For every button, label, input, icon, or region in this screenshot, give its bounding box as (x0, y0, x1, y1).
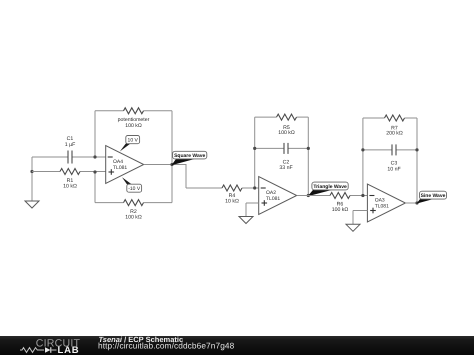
svg-text:Sine Wave: Sine Wave (421, 193, 446, 199)
op-amp U3 OA3 (367, 184, 405, 222)
svg-text:Triangle Wave: Triangle Wave (313, 184, 347, 190)
svg-text:-10 V: -10 V (128, 186, 141, 192)
node: integrator feedback taps (253, 147, 310, 190)
svg-text:TL081: TL081 (113, 165, 127, 171)
resistor R5 (255, 114, 309, 148)
capacitor C1 (32, 136, 106, 163)
resistor R2 (95, 165, 172, 221)
svg-text:100 kΩ: 100 kΩ (332, 207, 349, 213)
svg-text:200 kΩ: 200 kΩ (386, 131, 403, 137)
footer url (98, 341, 235, 351)
svg-text:100 kΩ: 100 kΩ (278, 130, 295, 136)
svg-text:TL081: TL081 (266, 196, 280, 202)
resistor R4 (186, 185, 259, 204)
node: feedback taps at OA4 inputs (93, 155, 96, 173)
svg-text:100 kΩ: 100 kΩ (125, 215, 142, 221)
svg-text:33 nF: 33 nF (279, 165, 292, 171)
op-amp U1 OA4 (106, 146, 144, 184)
net flag Triangle Wave (308, 182, 348, 196)
ground (346, 211, 367, 232)
svg-text:1 µF: 1 µF (65, 142, 75, 148)
ground (239, 203, 259, 224)
node: R1 tap on ground rail (30, 170, 33, 173)
svg-text:TL081: TL081 (375, 203, 389, 209)
resistor R7 (363, 115, 417, 150)
svg-text:10 kΩ: 10 kΩ (63, 184, 77, 190)
svg-text:Square Wave: Square Wave (174, 153, 205, 159)
node: sine wave net (415, 201, 418, 204)
svg-text:10 V: 10 V (128, 138, 139, 144)
svg-text:100 kΩ: 100 kΩ (125, 123, 142, 129)
svg-text:http://circuitlab.com/cddcb6e7: http://circuitlab.com/cddcb6e7n7g48 (98, 341, 235, 351)
svg-text:LAB: LAB (58, 345, 80, 355)
svg-text:10 nF: 10 nF (387, 167, 400, 173)
node: sine stage feedback taps (361, 148, 418, 197)
wire: OA3 output (405, 202, 417, 204)
power -10 V (122, 177, 142, 192)
op-amp U2 OA2 (259, 177, 297, 215)
power +10 V (120, 136, 140, 152)
CircuitLab logo (20, 337, 80, 355)
svg-text:10 kΩ: 10 kΩ (225, 198, 239, 204)
ground (25, 157, 39, 208)
node: square wave net (170, 163, 173, 166)
capacitor C3 (363, 144, 417, 203)
resistor R6 (297, 193, 368, 213)
net flag Sine Wave (417, 191, 447, 203)
potentiometer (100 k feedback) (95, 108, 172, 165)
wire: OA4 output to integrator (144, 165, 186, 189)
node: triangle wave net (307, 194, 310, 197)
capacitor C2 (255, 143, 309, 196)
footer title (99, 335, 184, 344)
resistor R1 (32, 169, 106, 190)
net flag Square Wave (172, 151, 207, 165)
